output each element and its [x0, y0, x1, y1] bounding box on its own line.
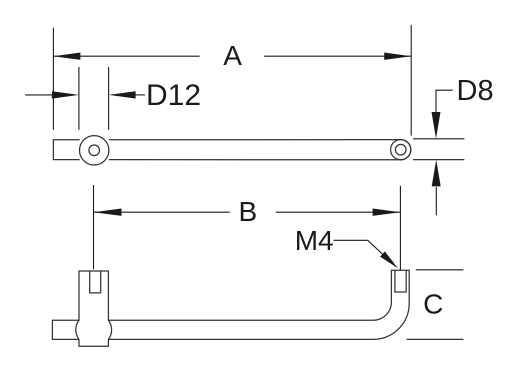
dim line A	[53, 55, 199, 57]
bottom view: rod and hub outline	[52, 270, 409, 346]
rod with bend	[108, 270, 409, 339]
dim line D12	[25, 94, 53, 96]
svg-text:D8: D8	[457, 75, 494, 107]
arrow A right	[384, 53, 411, 60]
ext line A left	[52, 28, 54, 130]
top view: bar outline	[53, 140, 410, 160]
left stub of rod	[52, 320, 79, 339]
thread section M4	[395, 270, 406, 292]
ext line D8 bottom	[413, 159, 464, 161]
svg-text:C: C	[423, 288, 443, 319]
arrow B right	[373, 209, 401, 216]
hub side view	[76, 271, 112, 346]
ext line C top	[416, 269, 464, 271]
leader D8	[436, 90, 453, 113]
arrow D12 right	[109, 91, 136, 98]
ext line D12 right	[108, 67, 110, 130]
hub slot	[90, 271, 101, 293]
svg-text:B: B	[239, 196, 258, 227]
svg-text:A: A	[223, 40, 242, 71]
arrow D12 left	[52, 91, 79, 98]
svg-text:M4: M4	[295, 225, 334, 256]
arrow D8 down	[432, 112, 441, 139]
top view: left hub outer circle D12	[80, 136, 109, 165]
ext line B left	[93, 185, 95, 269]
leader M4	[334, 240, 396, 266]
top view: left hub hole	[89, 145, 100, 156]
dim line B	[94, 211, 230, 213]
arrow A left	[53, 53, 80, 60]
arrow D8 up	[432, 160, 441, 187]
ext line A right	[410, 25, 412, 136]
top view: right hub outer circle D8	[391, 140, 411, 160]
ext line B right	[399, 186, 401, 270]
top view: right hub hole	[395, 144, 406, 155]
ext line D12 left	[78, 67, 80, 130]
ext line D8 top	[413, 138, 464, 140]
ext line C bottom	[407, 338, 464, 340]
arrowheads	[52, 53, 441, 269]
arrow B left	[94, 209, 122, 216]
svg-text:D12: D12	[146, 79, 201, 112]
arrow M4 leader	[380, 251, 398, 268]
dimension lines	[25, 25, 464, 339]
